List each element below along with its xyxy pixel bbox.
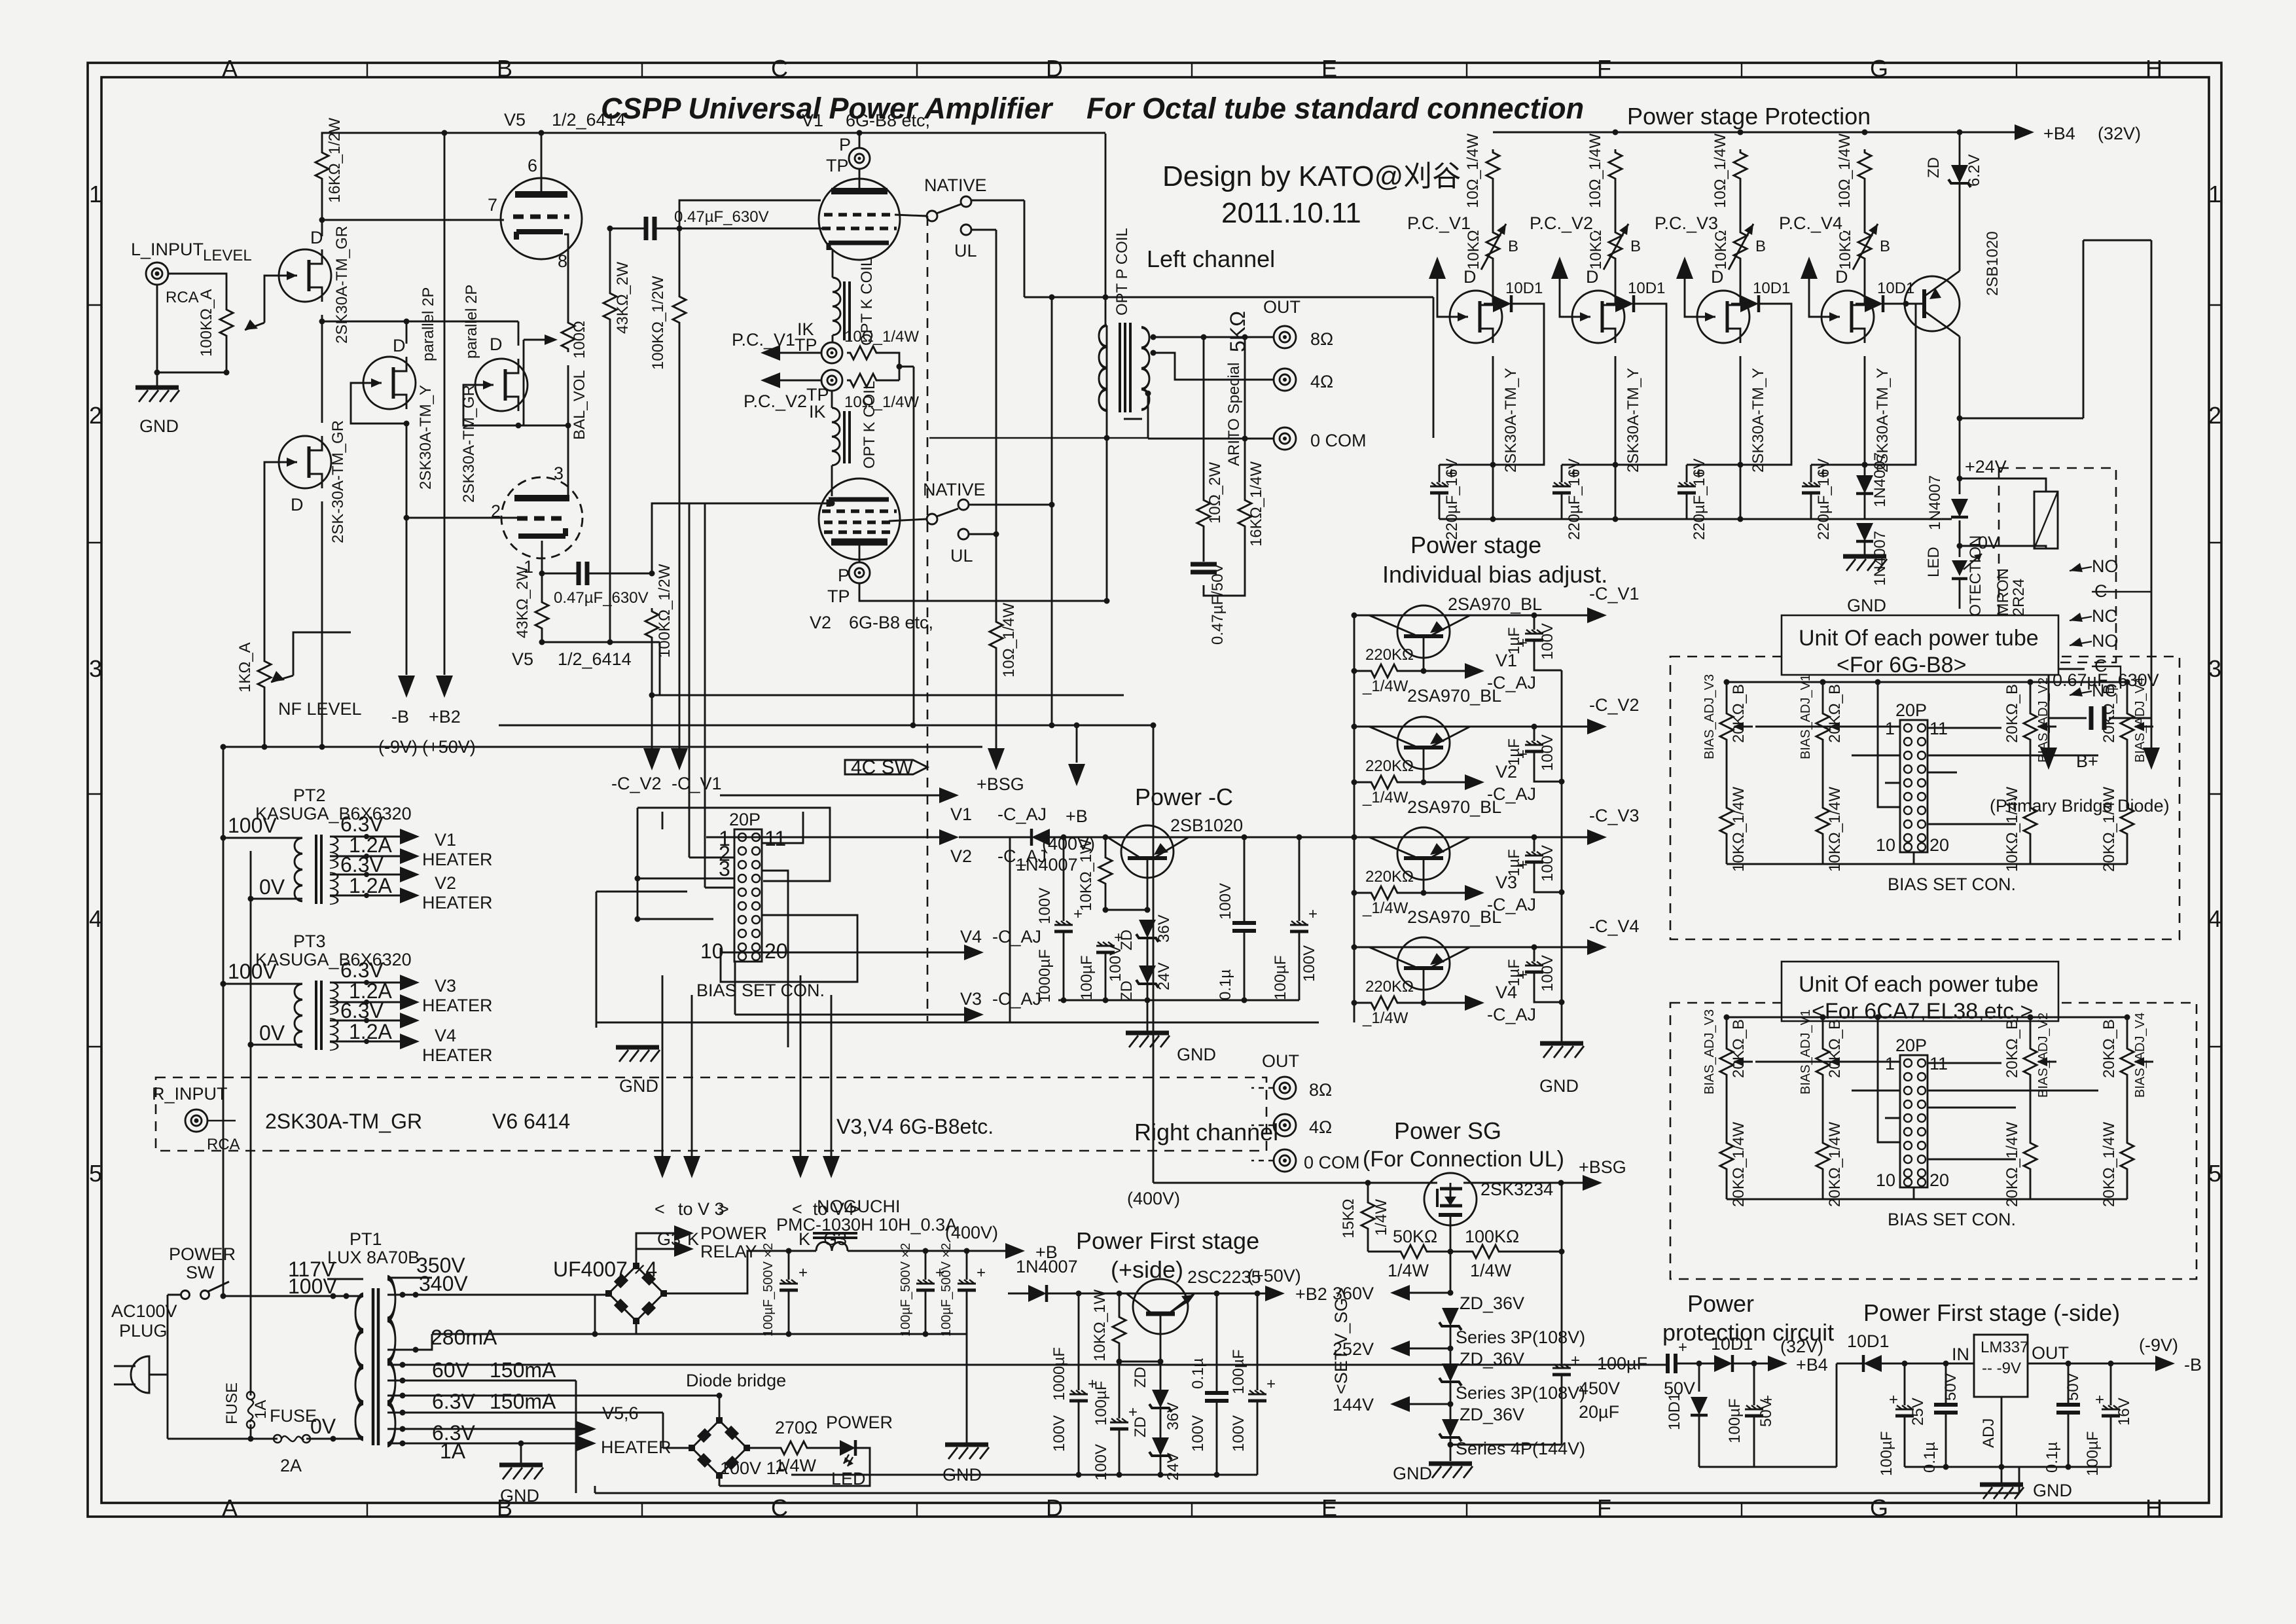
svg-text:1/2_6414: 1/2_6414 — [552, 110, 626, 130]
OPT K COIL upper winding — [833, 278, 840, 335]
svg-text:-B: -B — [391, 707, 409, 727]
svg-text:KASUGA_B6X6320: KASUGA_B6X6320 — [255, 804, 412, 823]
tube V5 lower half 1/2_6414 — [501, 477, 583, 558]
resistor 10Ω_1/4W upper sense — [847, 346, 880, 359]
svg-text:parallel 2P: parallel 2P — [463, 285, 480, 359]
svg-text:BIAS SET CON.: BIAS SET CON. — [696, 981, 825, 1000]
svg-text:R_INPUT: R_INPUT — [152, 1084, 228, 1104]
svg-text:Power -C: Power -C — [1135, 784, 1233, 810]
potentiometer 1KΩ_A NF — [258, 658, 271, 691]
svg-text:0V: 0V — [259, 1021, 285, 1045]
svg-text:10Ω_1/4W: 10Ω_1/4W — [844, 328, 919, 346]
svg-text:+: + — [1308, 905, 1318, 923]
svg-text:-B: -B — [2184, 1355, 2202, 1375]
svg-text:GND: GND — [1177, 1045, 1216, 1064]
svg-text:IN: IN — [1952, 1344, 1969, 1364]
svg-text:V2: V2 — [435, 873, 456, 893]
svg-text:(32V): (32V) — [1780, 1337, 1823, 1356]
secondary tap 350V — [387, 1277, 432, 1279]
svg-text:1.2A: 1.2A — [349, 1020, 392, 1043]
svg-text:OPT P COIL: OPT P COIL — [1113, 228, 1131, 316]
svg-text:2011.10.11: 2011.10.11 — [1221, 197, 1361, 229]
svg-text:(32V): (32V) — [2098, 124, 2141, 143]
svg-text:100µF_500V ×2: 100µF_500V ×2 — [761, 1243, 776, 1337]
resistor 10Ω_1/4W BSG — [990, 619, 1003, 651]
svg-text:1.2A: 1.2A — [349, 874, 392, 897]
grid ticks top — [367, 63, 2017, 77]
svg-text:D: D — [393, 336, 406, 355]
svg-text:Right channel: Right channel — [1134, 1119, 1278, 1146]
svg-text:+: + — [1128, 1403, 1138, 1421]
svg-text:2SK-30A-TM_GR: 2SK-30A-TM_GR — [329, 420, 347, 543]
ground L input — [135, 388, 179, 402]
svg-text:V3: V3 — [960, 989, 982, 1009]
svg-text:Power: Power — [1687, 1290, 1754, 1317]
svg-text:0 COM: 0 COM — [1310, 431, 1367, 450]
svg-text:24V: 24V — [1155, 962, 1173, 990]
capacitor 100µF 100V right powerC — [1299, 837, 1300, 921]
arrow +B4 prot — [1768, 1356, 1787, 1371]
svg-text:D: D — [1046, 1494, 1063, 1521]
transistor 2SC2235 — [1133, 1279, 1188, 1334]
svg-text:BIAS SET CON.: BIAS SET CON. — [1888, 1210, 2016, 1229]
svg-text:24V: 24V — [1164, 1453, 1182, 1481]
svg-text:3: 3 — [554, 463, 564, 483]
svg-text:150mA: 150mA — [490, 1358, 556, 1382]
wire routing loops around connector — [637, 808, 830, 881]
wire grid feed to V5 pin7 — [322, 219, 504, 221]
svg-text:20KΩ_B: 20KΩ_B — [2100, 1019, 2118, 1078]
svg-text:Series 3P(108V): Series 3P(108V) — [1456, 1327, 1585, 1347]
svg-text:D: D — [490, 334, 503, 354]
arrow V2 -C_AJ input — [706, 837, 941, 839]
arrow B+ left — [2040, 748, 2057, 770]
fuse 1A — [247, 1392, 255, 1428]
svg-text:-C_V1: -C_V1 — [672, 774, 722, 793]
LED POWER — [840, 1440, 855, 1456]
svg-text:GND: GND — [1539, 1076, 1579, 1096]
wire switch to PT1 — [223, 1295, 363, 1297]
wire 16K top to rail — [322, 133, 541, 149]
transformer PT1 secondary — [387, 1278, 395, 1445]
svg-text:NF LEVEL: NF LEVEL — [278, 699, 362, 719]
diode 10D1 down prot — [1698, 1363, 1700, 1392]
svg-text:270Ω: 270Ω — [775, 1418, 817, 1437]
wire source cell1 — [1492, 356, 1494, 519]
svg-text:10Ω_1/4W: 10Ω_1/4W — [1000, 603, 1018, 677]
wire Q2 gate to NF pot — [264, 462, 279, 658]
zener ZD 24V powerC — [1136, 965, 1158, 988]
tube V1 6G-B8 — [819, 179, 900, 260]
svg-text:+: + — [1073, 905, 1083, 923]
wire +side bottom rail — [791, 1474, 1257, 1476]
test point P TP V1 — [859, 133, 861, 191]
wire NF pot bottom to rail — [264, 691, 266, 747]
svg-text:OUT: OUT — [1262, 1051, 1299, 1071]
arrow +B 400V output — [1005, 1243, 1025, 1259]
wire LM337 out — [2028, 1363, 2155, 1365]
zener chain SET V_SG — [1448, 1290, 1454, 1296]
svg-text:GND: GND — [500, 1486, 539, 1506]
wire V5 cathode to BAL pot — [564, 234, 568, 319]
arrow V3 -C_AJ — [735, 1014, 965, 1016]
svg-text:-C_AJ: -C_AJ — [1487, 784, 1536, 804]
svg-text:Power SG: Power SG — [1394, 1117, 1501, 1144]
wire unit2 bottom rail — [1727, 1199, 2127, 1200]
svg-text:BAL_VOL: BAL_VOL — [571, 370, 588, 440]
wire bridge bottom — [636, 1321, 637, 1334]
wire collector loop right — [1960, 240, 2151, 737]
svg-text:PT2: PT2 — [293, 785, 326, 805]
svg-text:P: P — [838, 566, 850, 585]
svg-text:16KΩ_1/2W: 16KΩ_1/2W — [326, 118, 344, 203]
transistor 2SK30A-TM_Y cell1 — [1450, 291, 1502, 343]
LED protection — [1952, 560, 1967, 576]
svg-text:BIAS_ADJ_V3: BIAS_ADJ_V3 — [1702, 674, 1717, 759]
svg-text:B: B — [497, 55, 512, 82]
wire powerC box — [596, 837, 1319, 1022]
tube V2 6G-B8 — [819, 478, 900, 560]
svg-text:KASUGA_B6X6320: KASUGA_B6X6320 — [255, 950, 412, 969]
svg-text:(+side): (+side) — [1111, 1256, 1183, 1283]
resistor 220KΩ_1/4W — [1354, 670, 1368, 672]
wire V5 lower cathode — [541, 541, 543, 573]
svg-text:POWER: POWER — [826, 1413, 893, 1432]
svg-text:220KΩ: 220KΩ — [1365, 646, 1414, 664]
transistor Q4 2SK30A-TM_GR parallel — [475, 359, 528, 411]
resistor 10Ω_1/4W lower sense — [847, 374, 880, 387]
svg-text:16KΩ_1/4W: 16KΩ_1/4W — [1247, 461, 1265, 547]
arrow P.C._V1 — [779, 352, 821, 354]
svg-text:1: 1 — [1885, 719, 1895, 738]
svg-text:Individual bias adjust.: Individual bias adjust. — [1382, 561, 1607, 588]
svg-text:1A: 1A — [440, 1439, 466, 1463]
svg-text:2SK3234: 2SK3234 — [1480, 1180, 1553, 1199]
capacitor 0.1µ 50V -side — [1945, 1363, 1947, 1405]
svg-text:G: G — [1870, 1494, 1888, 1521]
svg-text:BIAS_ADJ_V2: BIAS_ADJ_V2 — [2036, 1013, 2051, 1098]
svg-text:5: 5 — [2208, 1160, 2221, 1187]
svg-text:4Ω: 4Ω — [1310, 372, 1333, 391]
wire bias left rail — [1354, 615, 1355, 1022]
capacitor 100µF_500V x2 no2 — [925, 1251, 927, 1280]
wire bottom bus — [595, 1467, 2019, 1493]
svg-text:10D1: 10D1 — [1666, 1393, 1683, 1430]
svg-text:144V: 144V — [1333, 1395, 1374, 1415]
wire prot bottom — [1699, 1363, 1863, 1467]
svg-text:20KΩ_1/4W: 20KΩ_1/4W — [1730, 1122, 1748, 1207]
svg-text:20KΩ_1/4W: 20KΩ_1/4W — [2003, 1122, 2021, 1207]
grid ticks bottom — [367, 1503, 2017, 1517]
svg-text:G: G — [1870, 55, 1888, 82]
transistor Q2 2SK-30A-TM_GR — [279, 436, 331, 488]
svg-text:50KΩ: 50KΩ — [1393, 1227, 1437, 1246]
svg-text:8: 8 — [558, 251, 567, 271]
diode 1N4007 drop2 — [1856, 523, 1873, 541]
jack OUT 4 ohm R — [1274, 1114, 1296, 1136]
svg-text:HEATER: HEATER — [422, 1045, 493, 1065]
relay coil — [2034, 492, 2058, 549]
wire secondary tap 8ohm — [1151, 336, 1274, 338]
svg-text:OPT K COIL: OPT K COIL — [861, 381, 878, 469]
svg-text:P.C._V1: P.C._V1 — [1407, 213, 1471, 233]
arrow -B — [2155, 1356, 2175, 1371]
svg-text:BIAS_ADJ_V2: BIAS_ADJ_V2 — [2036, 677, 2051, 763]
svg-text:2SK30A-TM_Y: 2SK30A-TM_Y — [1502, 368, 1520, 473]
resistor 16KΩ_1/4W secondary — [1238, 497, 1251, 530]
svg-text:1N4007: 1N4007 — [1926, 475, 1944, 530]
arrow -C_V1 supply — [671, 748, 688, 770]
svg-text:3: 3 — [719, 857, 730, 880]
wire wiper to Q1 gate — [264, 276, 279, 323]
svg-text:10: 10 — [1876, 835, 1895, 855]
svg-text:20KΩ_B: 20KΩ_B — [2003, 684, 2021, 743]
svg-text:10D1: 10D1 — [1711, 1334, 1753, 1354]
svg-text:-C_V2: -C_V2 — [1589, 695, 1640, 715]
svg-text:100V: 100V — [1300, 945, 1318, 982]
zener ZD 24V +side — [1149, 1437, 1172, 1460]
wire relay coil feed — [1960, 478, 2046, 549]
svg-text:V1: V1 — [950, 804, 972, 824]
svg-text:P.C._V2: P.C._V2 — [1530, 213, 1593, 233]
svg-text:50V: 50V — [1757, 1399, 1775, 1427]
wire Q3 drain stub — [406, 321, 408, 344]
wire NF rail long — [223, 746, 982, 748]
svg-text:BIAS_ADJ_V3: BIAS_ADJ_V3 — [1702, 1009, 1717, 1094]
svg-text:V1: V1 — [435, 830, 456, 850]
svg-text:-- -9V: -- -9V — [1982, 1360, 2021, 1377]
svg-text:GND: GND — [2033, 1481, 2072, 1500]
wire zener bottom to cap — [1450, 1444, 1562, 1446]
wire UL to 5K tap — [971, 230, 1142, 619]
wire V2 plate rail to OPT primary bottom — [859, 583, 1107, 601]
wire secondary tap 0com — [1148, 393, 1274, 439]
capacitor 100µF 50V prot out — [1753, 1363, 1755, 1405]
svg-text:ZD_36V: ZD_36V — [1460, 1405, 1524, 1424]
svg-text:PT3: PT3 — [293, 931, 326, 951]
wire 400V line down to SG — [1153, 725, 1155, 1183]
svg-text:1: 1 — [1885, 1054, 1895, 1074]
zener ZD_36V no2 — [1439, 1363, 1462, 1386]
svg-text:C: C — [771, 55, 788, 82]
svg-text:B: B — [1508, 238, 1518, 255]
test point P TP V2 — [859, 545, 861, 562]
svg-text:1N4007: 1N4007 — [1016, 855, 1078, 875]
wire bias right cap rail — [1561, 670, 1563, 1042]
svg-text:7: 7 — [488, 195, 497, 215]
svg-text:-C_V4: -C_V4 — [1589, 916, 1640, 936]
resistor 43KΩ_2W upper — [603, 290, 617, 323]
svg-text:100V: 100V — [1539, 623, 1556, 660]
resistor 16KΩ_1/2W — [315, 149, 329, 182]
wire 43K bottoms rail — [542, 641, 660, 643]
svg-text:GND: GND — [1847, 596, 1886, 615]
svg-text:Unit Of each power tube: Unit Of each power tube — [1799, 972, 2039, 997]
wire bridge to +B rail — [664, 1251, 816, 1293]
svg-text:+: + — [798, 1264, 808, 1282]
arrow B+ right — [2143, 748, 2160, 770]
svg-text:20KΩ_B: 20KΩ_B — [1730, 684, 1748, 743]
svg-text:V2: V2 — [950, 846, 972, 866]
svg-text:100µF: 100µF — [1230, 1349, 1247, 1394]
svg-text:NO: NO — [2092, 631, 2119, 651]
wire Q1 source down — [321, 315, 323, 423]
svg-text:6: 6 — [528, 156, 537, 175]
resistor 100KΩ_1/2W upper — [673, 293, 686, 326]
capacitor 100µF 100V +side right — [1257, 1293, 1259, 1390]
resistor 10Ω_1/4W cell1 — [1486, 149, 1499, 182]
svg-text:10KΩ_1/4W: 10KΩ_1/4W — [2003, 787, 2021, 872]
switch NATIVE/UL V1 — [895, 215, 927, 216]
power switch — [181, 1291, 190, 1299]
svg-text:10Ω_1/4W: 10Ω_1/4W — [1464, 134, 1482, 208]
svg-text:P.C._V4: P.C._V4 — [1779, 213, 1842, 233]
svg-text:FUSE: FUSE — [223, 1382, 241, 1424]
svg-text:150mA: 150mA — [490, 1390, 556, 1413]
svg-text:50V: 50V — [2064, 1373, 2082, 1401]
svg-text:BIAS_ADJ_V1: BIAS_ADJ_V1 — [1799, 674, 1813, 759]
unit2 connector wires — [1878, 1017, 1900, 1142]
svg-text:100µF: 100µF — [1092, 1380, 1110, 1426]
svg-text:parallel 2P: parallel 2P — [420, 287, 437, 361]
test point IK TP V1 — [821, 342, 842, 363]
svg-text:100V: 100V — [228, 814, 277, 837]
resistor 100KΩ_1/2W lower — [645, 608, 658, 641]
svg-text:Series 4P(144V): Series 4P(144V) — [1456, 1439, 1585, 1458]
unit1 connector wires — [1878, 682, 1900, 807]
svg-text:220µF_16V: 220µF_16V — [1443, 458, 1461, 540]
svg-text:V4: V4 — [960, 927, 982, 947]
secondary taps 6.3V 1A heater — [387, 1428, 578, 1430]
svg-text:ARITO Special: ARITO Special — [1225, 363, 1243, 466]
svg-text:4: 4 — [2208, 905, 2221, 932]
svg-text:43KΩ_2W: 43KΩ_2W — [614, 262, 632, 334]
svg-text:Power stage: Power stage — [1410, 532, 1541, 558]
wire primary bottom down — [1106, 410, 1108, 601]
svg-text:5: 5 — [89, 1160, 102, 1187]
svg-text:1: 1 — [2208, 181, 2221, 208]
svg-text:-C_AJ: -C_AJ — [997, 804, 1047, 824]
OPT K COIL lower winding — [831, 391, 833, 408]
secondary taps 6.3V 150mA — [387, 1395, 719, 1397]
svg-text:V5,6: V5,6 — [602, 1403, 639, 1423]
svg-text:BIAS_ADJ_V1: BIAS_ADJ_V1 — [1799, 1009, 1813, 1094]
svg-text:LM337: LM337 — [1981, 1339, 2028, 1356]
svg-text:10KΩ_1/4W: 10KΩ_1/4W — [1730, 787, 1748, 872]
svg-text:50V: 50V — [1942, 1373, 1960, 1401]
svg-text:100KΩ: 100KΩ — [1465, 1227, 1519, 1246]
svg-text:V4: V4 — [1496, 983, 1517, 1002]
bridge UF4007 — [605, 1263, 667, 1324]
wire bottom rail protection — [1439, 518, 1960, 520]
grid numbers right — [2208, 181, 2221, 1187]
svg-text:0V: 0V — [259, 875, 285, 899]
svg-text:100V: 100V — [1189, 1415, 1207, 1452]
wire pot bottom — [226, 339, 228, 372]
svg-text:to V 3: to V 3 — [678, 1199, 725, 1219]
svg-text:ZD_36V: ZD_36V — [1460, 1349, 1524, 1369]
svg-text:>: > — [719, 1199, 729, 1219]
wire 100V bus — [223, 747, 224, 1296]
svg-text:<For 6G-B8>: <For 6G-B8> — [1837, 653, 1966, 677]
grid numbers left — [89, 181, 102, 1187]
svg-text:2SB1020: 2SB1020 — [1170, 816, 1243, 835]
grid ticks left — [88, 305, 101, 1047]
svg-text:20KΩ_B: 20KΩ_B — [2003, 1019, 2021, 1078]
grid letters top — [222, 55, 2162, 82]
svg-text:20KΩ_B: 20KΩ_B — [1730, 1019, 1748, 1078]
wire UL2 — [969, 533, 996, 535]
wire LED loop — [719, 1448, 870, 1486]
svg-text:6.3V: 6.3V — [432, 1390, 475, 1413]
jack OUT 0 COM R — [1274, 1149, 1296, 1172]
svg-text:(400V): (400V) — [945, 1223, 998, 1242]
svg-text:NOGUCHI: NOGUCHI — [817, 1197, 901, 1216]
svg-text:F: F — [1597, 55, 1611, 82]
svg-text:20KΩ_1/4W: 20KΩ_1/4W — [1826, 1122, 1844, 1207]
wire Q4 drain stub — [518, 321, 520, 346]
capacitor 0.1µ 50V -side out — [2068, 1363, 2070, 1405]
svg-text:V5: V5 — [504, 110, 526, 130]
dashed 4C SW boundary — [927, 216, 929, 1021]
wire 43K upper top to cap node — [609, 228, 611, 290]
ground powerC — [1126, 1033, 1170, 1047]
svg-text:2A: 2A — [280, 1456, 302, 1475]
svg-text:P.C._V3: P.C._V3 — [1655, 213, 1718, 233]
zener ZD 6.2V — [1959, 132, 1961, 165]
svg-text:8Ω: 8Ω — [1310, 329, 1333, 349]
capacitor 100µF 100V powerC — [1096, 942, 1115, 952]
svg-text:20P: 20P — [1895, 700, 1927, 720]
wire cap node up — [679, 200, 821, 228]
svg-text:100V: 100V — [1230, 1415, 1247, 1452]
svg-text:16V: 16V — [2115, 1398, 2133, 1426]
transformer PT1 primary — [355, 1295, 363, 1439]
svg-text:(-9V): (-9V) — [2139, 1335, 2178, 1355]
svg-text:100V 1A: 100V 1A — [720, 1458, 788, 1478]
relay contact set — [2070, 567, 2092, 695]
diode 1N4007 relay — [1952, 494, 1967, 520]
svg-text:-C_AJ: -C_AJ — [1487, 673, 1536, 693]
wire -side bottom rail — [1905, 1466, 2111, 1468]
svg-text:V1: V1 — [1496, 651, 1517, 670]
svg-text:<: < — [655, 1199, 665, 1219]
svg-text:100KΩ_1/2W: 100KΩ_1/2W — [656, 564, 673, 658]
capacitor 0.1µ 100V powerC — [1244, 837, 1246, 923]
svg-text:20KΩ_B: 20KΩ_B — [2100, 684, 2118, 743]
transistor 2SB1020 powerC — [1121, 825, 1174, 878]
svg-text:Left channel: Left channel — [1147, 245, 1275, 272]
capacitor 0.1µ 100V +side — [1216, 1293, 1218, 1393]
secondary tap 340V — [387, 1294, 610, 1296]
svg-text:LED: LED — [1925, 547, 1943, 577]
wire BAL pot to V5 lower plate pin3 — [567, 365, 569, 498]
svg-text:RCA: RCA — [166, 289, 199, 306]
svg-text:D: D — [1463, 267, 1477, 287]
wire long vertical feedback rail — [444, 133, 446, 675]
wire rail mid2 — [499, 725, 1153, 727]
wire unit1 top rail — [1727, 681, 2127, 683]
svg-text:6.3V: 6.3V — [340, 853, 384, 876]
svg-text:+BSG: +BSG — [1579, 1157, 1626, 1177]
wire SG drain rail — [1153, 1182, 1583, 1184]
gate arrow P.C._V1 — [1437, 279, 1450, 317]
svg-text:-C_V3: -C_V3 — [1589, 806, 1640, 825]
wire NATIVE to +B — [971, 200, 1105, 297]
svg-text:20KΩ_B: 20KΩ_B — [1826, 1019, 1844, 1078]
svg-text:V3: V3 — [435, 976, 456, 996]
potentiometer 100KΩ_A LEVEL — [220, 306, 233, 339]
